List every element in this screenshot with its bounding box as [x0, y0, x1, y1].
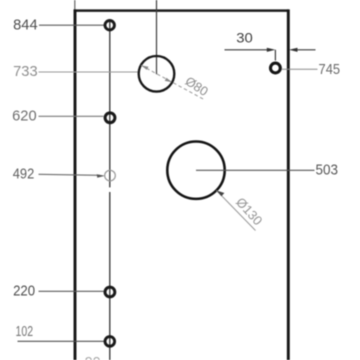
- svg-text:503: 503: [316, 163, 339, 179]
- circle D130: [167, 142, 224, 199]
- svg-text:30: 30: [236, 31, 253, 47]
- leader D80 (diagonal dashed): [141, 65, 205, 100]
- svg-text:492: 492: [13, 166, 35, 182]
- plate right edge: [287, 9, 290, 360]
- extension line above left corner: [74, 0, 76, 10]
- svg-text:90: 90: [85, 354, 101, 360]
- leader 733: [39, 71, 139, 73]
- leader 844: [39, 24, 104, 26]
- svg-text:733: 733: [13, 64, 38, 80]
- svg-text:102: 102: [16, 323, 34, 340]
- plate left edge: [74, 9, 77, 360]
- svg-text:745: 745: [319, 62, 341, 78]
- svg-text:844: 844: [13, 17, 38, 33]
- dim 30 drop to hole: [274, 50, 276, 61]
- hole top-right: [271, 63, 281, 73]
- svg-text:620: 620: [12, 108, 37, 124]
- svg-text:220: 220: [13, 283, 35, 299]
- hole at 492 (thin): [105, 170, 116, 181]
- leader 220: [39, 290, 104, 292]
- leader D130 with arrow: [216, 190, 255, 230]
- leader 492 with arrow: [39, 174, 100, 175]
- dim 30 arrow left-pointing: [289, 48, 298, 52]
- dim 30 right tail: [297, 49, 316, 51]
- hole at 620: [105, 113, 115, 123]
- leader 745: [282, 68, 318, 70]
- centerline of circle D80: [156, 0, 158, 74]
- hole at 844: [105, 21, 114, 30]
- dim 30 arrow right-pointing: [267, 48, 276, 52]
- leader 102: [18, 340, 104, 342]
- hole at 102: [105, 337, 115, 347]
- plate top edge: [74, 9, 289, 12]
- leader 503: [196, 169, 315, 171]
- hole at 220: [105, 287, 115, 297]
- circle D80: [139, 56, 175, 92]
- dim 30 left line: [225, 49, 269, 51]
- leader 620: [39, 115, 104, 117]
- centerline of hole column: [109, 20, 111, 187]
